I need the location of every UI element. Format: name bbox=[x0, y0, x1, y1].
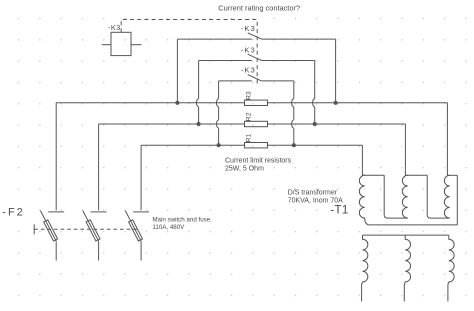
resistor R2 bbox=[245, 121, 268, 126]
contactor coil K3 bbox=[102, 32, 142, 55]
hop mark contact2 right bbox=[313, 99, 315, 107]
wire row2 right to transformer coil2 bbox=[404, 124, 406, 175]
svg-text:R2: R2 bbox=[245, 112, 252, 121]
wire row3 phase bus bbox=[141, 144, 362, 146]
hop marks contact3 left bbox=[217, 99, 219, 129]
resistor R3 bbox=[245, 100, 268, 105]
wire contact3 right drop to row3 (hops over row1,row2) bbox=[293, 81, 295, 145]
transformer T1 primary winding 2 bbox=[384, 175, 427, 218]
hop marks contact3 right bbox=[292, 99, 294, 129]
svg-text:D/S transformer: D/S transformer bbox=[288, 190, 338, 197]
dashed mechanical link coil to contacts bbox=[121, 20, 257, 86]
switch-fuse F2 pole 1 bbox=[40, 211, 64, 261]
wire contact1 right drop to row1 bbox=[335, 39, 337, 103]
hop mark contact2 left bbox=[197, 99, 199, 107]
transformer T1 primary winding 1 bbox=[359, 175, 457, 225]
wire row2 phase bus bbox=[99, 123, 406, 125]
wire contact3 left drop to row3 (hops over row1,row2) bbox=[218, 81, 220, 145]
node row1-left-vertical junction bbox=[175, 101, 179, 105]
wire row1 phase bus bbox=[56, 102, 447, 104]
transformer T1 primary winding 3 bbox=[427, 175, 457, 225]
wire contact2 left drop to row2 (hop over row1) bbox=[198, 61, 200, 125]
node row3-left-vertical junction bbox=[217, 143, 221, 147]
svg-text:-F2: -F2 bbox=[2, 206, 25, 218]
svg-text:Current rating contactor?: Current rating contactor? bbox=[218, 4, 300, 13]
svg-text:25W, 5 Ohm: 25W, 5 Ohm bbox=[225, 166, 264, 173]
contact K3 pole 1 bbox=[177, 33, 335, 39]
transformer T1 secondary winding 2 bbox=[404, 235, 410, 301]
svg-text:Main switch and fuse.: Main switch and fuse. bbox=[152, 216, 212, 223]
wire row1 left drop to switch 1 bbox=[55, 103, 57, 211]
resistor R1 bbox=[245, 143, 268, 148]
contact K3 pole 2 bbox=[199, 54, 315, 60]
svg-text:-K3: -K3 bbox=[241, 66, 256, 75]
svg-text:R3: R3 bbox=[245, 91, 252, 100]
svg-text:110A, 480V: 110A, 480V bbox=[152, 224, 185, 231]
transformer T1 secondary winding 1 bbox=[362, 235, 368, 301]
node row1-right-vertical junction bbox=[334, 101, 338, 105]
node row2-right-vertical junction bbox=[313, 122, 317, 126]
wire row1 right to transformer coil3 bbox=[446, 103, 448, 176]
node row2-left-vertical junction bbox=[197, 122, 201, 126]
svg-text:R1: R1 bbox=[245, 133, 252, 142]
node row3-right-vertical junction bbox=[292, 143, 296, 147]
wire contact2 right drop to row2 (hop over row1) bbox=[314, 61, 316, 125]
svg-text:-T1: -T1 bbox=[330, 205, 348, 217]
switch-fuse F2 pole 2 bbox=[83, 211, 107, 261]
F2 mechanical link dashed with handle bbox=[34, 224, 139, 234]
switch-fuse F2 pole 3 bbox=[125, 211, 149, 261]
transformer T1 secondary winding 3 bbox=[448, 235, 454, 301]
contact K3 pole 3 bbox=[219, 75, 294, 81]
svg-text:-K3: -K3 bbox=[241, 24, 256, 33]
svg-text:Current limit resistors: Current limit resistors bbox=[225, 158, 292, 165]
wire row2 left drop to switch 2 bbox=[98, 124, 100, 210]
wire row3 left drop to switch 3 bbox=[140, 145, 142, 210]
wire contact1 left drop to row1 bbox=[176, 39, 178, 103]
wire row3 right to transformer coil1 bbox=[361, 145, 363, 175]
transformer T1 secondary star bus bbox=[363, 234, 449, 236]
svg-text:-K3: -K3 bbox=[108, 23, 121, 32]
svg-text:-K3: -K3 bbox=[241, 45, 256, 54]
